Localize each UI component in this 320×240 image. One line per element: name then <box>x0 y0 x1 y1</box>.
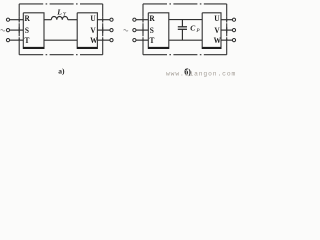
svg-text:S: S <box>25 26 29 35</box>
svg-text:U: U <box>90 14 96 23</box>
output wires (figure a) <box>97 20 110 40</box>
border-wire crossing ticks (figure b) <box>143 17 227 43</box>
output terminal circles (figure b) <box>232 18 235 42</box>
svg-text:U: U <box>214 14 220 23</box>
labels U V W (figure b) <box>214 14 222 45</box>
AC tilde marks left terminals (figure a) <box>1 29 5 31</box>
svg-text:T: T <box>150 36 155 45</box>
motor box U V W (figure a) <box>77 13 98 48</box>
wire coil to right box (figure a) <box>68 19 77 21</box>
input wires (figure b) <box>136 20 148 40</box>
converter box R S T (figure b) <box>148 13 170 48</box>
input wires (figure a) <box>10 20 24 40</box>
input terminal circles (figure a) <box>6 18 9 42</box>
output terminal circles (figure a) <box>110 18 113 42</box>
enclosure dash-dot box (figure a) <box>19 4 103 55</box>
svg-text:V: V <box>214 26 220 35</box>
converter box R S T (figure a) <box>23 13 45 48</box>
inductor Ly coil <box>51 16 68 19</box>
svg-text:R: R <box>24 14 30 23</box>
svg-text:V: V <box>90 26 96 35</box>
svg-text:T: T <box>25 36 30 45</box>
svg-text:а): а) <box>58 66 65 75</box>
labels U V W <box>90 14 98 45</box>
svg-text:б): б) <box>184 68 191 77</box>
wire bottom row between boxes (figure b) <box>169 39 202 41</box>
svg-text:S: S <box>150 26 154 35</box>
labels R S T <box>24 14 30 45</box>
label Ly <box>56 7 67 17</box>
svg-text:L: L <box>56 7 62 16</box>
input terminal circles (figure b) <box>133 18 136 42</box>
wire top row between boxes (figure b) <box>169 19 202 21</box>
svg-text:W: W <box>90 36 98 45</box>
output wires (figure b) <box>221 20 232 40</box>
labels R S T (figure b) <box>149 14 155 45</box>
label Cf <box>190 23 200 34</box>
enclosure dash-dot box (figure b) <box>143 4 227 55</box>
wire T-row between boxes (figure a) <box>44 39 77 41</box>
AC tilde marks left terminals (figure b) <box>124 29 128 31</box>
svg-text:W: W <box>214 36 222 45</box>
motor box U V W (figure b) <box>202 13 222 48</box>
svg-text:R: R <box>149 14 155 23</box>
svg-text:www.diangon.com: www.diangon.com <box>166 71 236 78</box>
svg-text:P: P <box>195 28 200 34</box>
capacitor Cf <box>178 20 187 40</box>
border-wire crossing ticks (figure a) <box>19 17 103 43</box>
wire R-row box to coil (figure a) <box>44 19 51 21</box>
